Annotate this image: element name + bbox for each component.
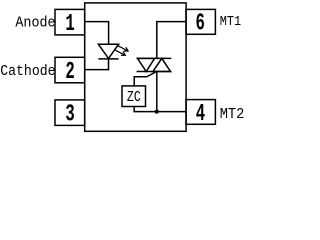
LED light arrow lower xyxy=(115,50,125,55)
gate wire triac to ZC xyxy=(134,72,157,86)
LED D1 xyxy=(98,44,118,58)
pin 2 box xyxy=(55,57,85,83)
pin 3 box xyxy=(55,100,85,126)
wire ZC to node A xyxy=(134,107,157,112)
triac Q1 top bar xyxy=(137,57,172,59)
wire pin1 to LED anode xyxy=(85,22,109,44)
junction node A xyxy=(155,110,159,114)
wire pin6 to triac MT1 xyxy=(157,22,186,59)
triac Q1 bottom bar xyxy=(137,71,172,73)
svg-text:4: 4 xyxy=(196,101,205,128)
svg-text:MT2: MT2 xyxy=(220,105,245,123)
pin 1 box xyxy=(55,9,85,35)
svg-text:Anode: Anode xyxy=(15,15,55,31)
svg-text:ZC: ZC xyxy=(127,90,141,106)
wire node A to pin4 MT2 xyxy=(157,111,186,113)
pin 6 box xyxy=(186,9,215,34)
IC body U1 xyxy=(85,3,186,131)
triac Q1 right triangle xyxy=(153,58,171,71)
svg-text:3: 3 xyxy=(65,101,74,128)
zero crossing circuit ZC box xyxy=(122,86,146,107)
triac Q1 left triangle xyxy=(138,58,155,71)
svg-text:2: 2 xyxy=(65,59,74,86)
LED light arrow upper xyxy=(118,46,128,51)
wire triac MT2 to node A xyxy=(156,72,158,112)
svg-text:MT1: MT1 xyxy=(220,14,241,30)
pin 4 box xyxy=(186,100,215,125)
svg-text:Cathode: Cathode xyxy=(0,64,55,80)
svg-text:1: 1 xyxy=(65,11,74,38)
svg-text:6: 6 xyxy=(196,11,205,38)
wire LED cathode to pin2 xyxy=(85,59,109,70)
